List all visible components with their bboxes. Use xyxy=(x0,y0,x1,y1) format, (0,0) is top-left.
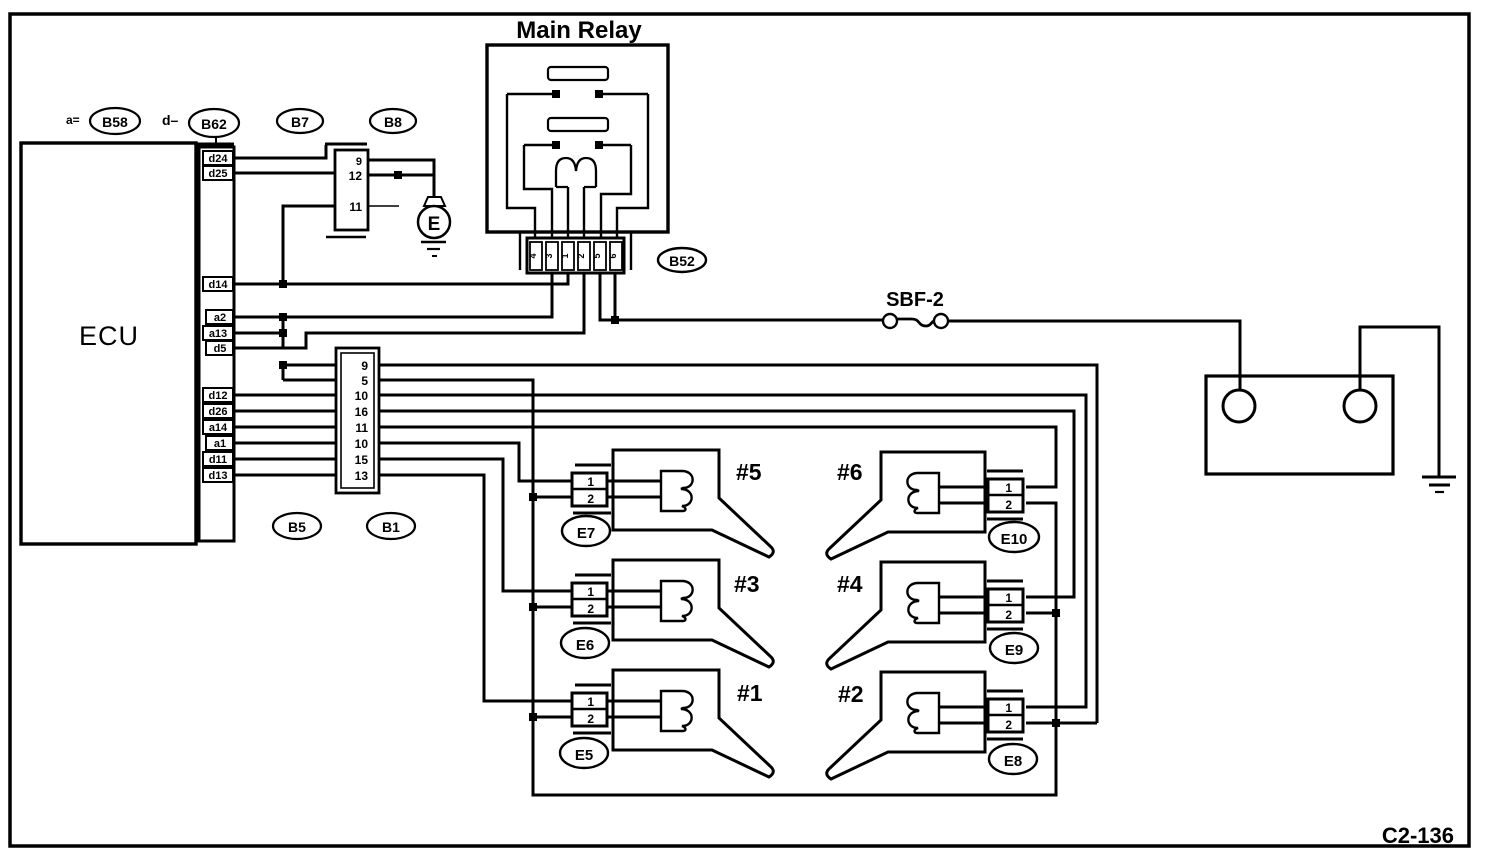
svg-text:d25: d25 xyxy=(209,168,228,180)
battery BAT xyxy=(1206,376,1393,474)
connector strip B52 xyxy=(527,238,624,273)
relay case stubs xyxy=(519,232,521,270)
wire B1 pin9 to injector common right xyxy=(379,365,1097,723)
svg-text:d14: d14 xyxy=(209,279,229,291)
wire a14 to injector 6 xyxy=(379,427,1056,487)
svg-text:a1: a1 xyxy=(214,438,226,450)
svg-text:10: 10 xyxy=(355,437,369,451)
svg-text:1: 1 xyxy=(560,253,570,258)
pin a13 xyxy=(203,326,233,340)
wire common to E6 pin2 xyxy=(533,606,572,609)
relay coil xyxy=(556,158,596,187)
connector oval B7 xyxy=(277,109,323,133)
svg-text:E7: E7 xyxy=(577,525,595,542)
svg-text:E5: E5 xyxy=(575,747,593,764)
wire jumper vertical xyxy=(282,365,285,380)
connector oval B1 xyxy=(367,513,415,539)
svg-text:d13: d13 xyxy=(209,470,228,482)
wire d14 to B52 pin1 xyxy=(235,273,568,284)
wire E8 pin2 to common xyxy=(1026,722,1097,725)
connector oval E9 xyxy=(990,633,1038,663)
svg-text:#4: #4 xyxy=(837,571,863,597)
svg-text:d12: d12 xyxy=(209,390,228,402)
pin d24 xyxy=(203,151,233,165)
wire a14 to B1 xyxy=(235,426,336,429)
wire battery negative to ground xyxy=(1360,327,1439,477)
wire d11 to B1 xyxy=(235,458,336,461)
connector B7 box xyxy=(325,144,368,237)
relay lead pin5 xyxy=(601,145,631,238)
injector #4 xyxy=(827,562,1023,669)
junction on pin12 wire xyxy=(394,171,402,179)
ground E symbol xyxy=(418,197,450,256)
junction a13 xyxy=(279,329,287,337)
main relay U1 box xyxy=(487,45,668,232)
svg-text:16: 16 xyxy=(355,405,369,419)
svg-text:#1: #1 xyxy=(737,680,763,706)
svg-text:ECU: ECU xyxy=(79,321,139,351)
fuse SBF-2 xyxy=(883,314,948,328)
wire vertical a2-a13-d5 tie xyxy=(282,317,285,348)
svg-text:B5: B5 xyxy=(288,519,306,535)
svg-text:#5: #5 xyxy=(736,459,762,485)
svg-text:a13: a13 xyxy=(209,328,227,340)
svg-text:#2: #2 xyxy=(838,681,864,707)
svg-text:E6: E6 xyxy=(576,637,594,654)
connector B1 box xyxy=(336,348,379,493)
wire a13 xyxy=(235,332,283,335)
ECU box xyxy=(21,143,234,544)
connector oval B62 xyxy=(189,109,239,147)
wire B52 pin6 drop xyxy=(614,273,617,320)
wire d25 to B7 pin12 xyxy=(235,172,335,175)
svg-text:13: 13 xyxy=(355,469,369,483)
svg-text:5: 5 xyxy=(361,374,368,388)
pin d11 xyxy=(203,452,233,466)
junction SBF-2 left xyxy=(611,316,619,324)
svg-text:d–: d– xyxy=(162,112,179,128)
wire B7 pin11 stub right xyxy=(368,205,399,207)
svg-text:B7: B7 xyxy=(291,114,309,130)
wire B1 pin5 common left xyxy=(379,380,1056,795)
relay slot lower xyxy=(548,118,608,131)
wire B7 pin11 left down to d14 xyxy=(283,206,335,284)
svg-text:#6: #6 xyxy=(837,459,863,485)
svg-text:9: 9 xyxy=(361,359,368,373)
wire common to E7 pin2 xyxy=(533,496,572,499)
wire E9 pin2 to common xyxy=(1026,612,1056,615)
svg-text:5: 5 xyxy=(592,253,602,258)
svg-text:2: 2 xyxy=(576,253,586,258)
svg-text:d5: d5 xyxy=(214,343,227,355)
wire B52 pin5 to SBF-2 xyxy=(600,273,884,320)
junction pin9 xyxy=(279,361,287,369)
junction a2 xyxy=(279,313,287,321)
svg-text:15: 15 xyxy=(355,453,369,467)
pin d5 xyxy=(206,341,233,355)
relay contact upper right xyxy=(601,93,648,95)
wire common to E5 pin2 xyxy=(533,716,572,719)
wire B7 pin9 to ground E xyxy=(368,160,434,198)
wire B1 pin5 jumper xyxy=(283,379,336,382)
connector oval E10 xyxy=(989,522,1039,552)
pin d26 xyxy=(203,404,233,418)
pin a2 xyxy=(206,310,233,324)
injector #3 xyxy=(572,560,773,667)
svg-text:B8: B8 xyxy=(384,114,402,130)
connector oval B5 xyxy=(273,513,321,539)
wire d12 to B1 xyxy=(235,394,336,397)
connector oval E8 xyxy=(989,744,1037,774)
pin a14 xyxy=(203,420,233,434)
wire fuse to battery positive xyxy=(948,321,1240,390)
connector oval E5 xyxy=(560,738,608,768)
wire d13 to injector 1 xyxy=(379,475,572,701)
svg-text:#3: #3 xyxy=(734,571,760,597)
relay lead pin3 xyxy=(524,145,552,238)
wire a1 to B1 xyxy=(235,442,336,445)
wire a1 to injector 5 xyxy=(379,443,572,481)
relay contact lower right xyxy=(601,144,631,146)
svg-text:3: 3 xyxy=(544,253,554,258)
svg-text:d26: d26 xyxy=(209,406,228,418)
relay contact lower left xyxy=(524,144,553,146)
pin d13 xyxy=(203,468,233,482)
svg-text:E9: E9 xyxy=(1005,642,1023,659)
ECU pin strip B58/B62 xyxy=(199,147,234,541)
svg-text:a2: a2 xyxy=(214,312,226,324)
junction d14 xyxy=(279,280,287,288)
svg-text:E: E xyxy=(428,214,441,235)
svg-text:B58: B58 xyxy=(102,114,128,130)
relay contact upper left xyxy=(507,93,553,95)
ground battery xyxy=(1422,477,1456,492)
svg-text:d24: d24 xyxy=(209,153,229,165)
wire d5 to B52 pin2 xyxy=(235,273,584,348)
wire d13 to B1 xyxy=(235,474,336,477)
svg-text:Main Relay: Main Relay xyxy=(516,17,642,44)
svg-text:d11: d11 xyxy=(209,454,227,466)
wire d26 to B1 xyxy=(235,410,336,413)
injector #5 xyxy=(572,450,773,557)
wire a2 to B52 pin3 xyxy=(235,273,552,317)
svg-text:11: 11 xyxy=(355,421,368,435)
connector oval B52 xyxy=(658,248,706,272)
wire d26 to injector 4 xyxy=(379,411,1074,597)
pin a1 xyxy=(206,436,233,450)
svg-text:a14: a14 xyxy=(209,422,228,434)
svg-text:SBF-2: SBF-2 xyxy=(886,289,944,311)
pin d25 xyxy=(203,166,233,180)
wire B7 pin12 to ground E xyxy=(368,174,435,177)
svg-text:E10: E10 xyxy=(1001,531,1028,548)
connector oval E7 xyxy=(562,516,610,546)
svg-text:12: 12 xyxy=(349,169,363,183)
relay coil legs xyxy=(567,187,569,238)
connector oval B8 xyxy=(370,109,416,133)
svg-text:B52: B52 xyxy=(669,253,695,269)
relay lead pin6 xyxy=(617,94,648,238)
wire d24 to B7 xyxy=(235,145,326,158)
svg-text:10: 10 xyxy=(355,389,369,403)
svg-text:E8: E8 xyxy=(1004,753,1022,770)
wire d11 to injector 3 xyxy=(379,459,572,591)
relay slot upper xyxy=(548,67,608,80)
wire B1 pin9 jumper xyxy=(283,364,336,367)
svg-text:9: 9 xyxy=(356,156,362,168)
wire d12 to injector 2 xyxy=(379,395,1086,707)
pin d14 xyxy=(203,277,233,291)
injector #6 xyxy=(827,452,1023,559)
svg-text:B1: B1 xyxy=(382,519,400,535)
svg-text:4: 4 xyxy=(528,253,538,258)
injector #1 xyxy=(572,670,773,777)
svg-text:11: 11 xyxy=(349,200,362,214)
svg-text:a=: a= xyxy=(66,113,80,127)
injector #2 xyxy=(827,672,1023,779)
connector oval B58 xyxy=(90,108,140,134)
pin d12 xyxy=(203,388,233,402)
relay lead pin4 xyxy=(507,94,535,238)
svg-text:B62: B62 xyxy=(201,116,227,132)
connector oval E6 xyxy=(561,628,609,658)
svg-text:6: 6 xyxy=(608,253,618,258)
svg-text:C2-136: C2-136 xyxy=(1382,823,1454,848)
